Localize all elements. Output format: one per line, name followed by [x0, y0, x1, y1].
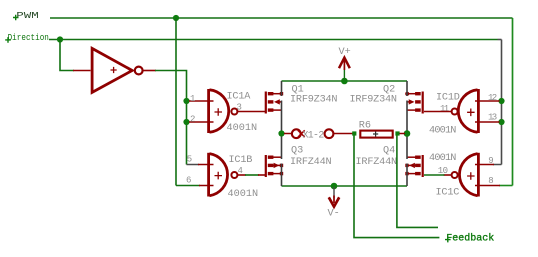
- wire pin 12: [475, 100, 500, 102]
- power V+: [339, 47, 351, 80]
- node Direction junction: [57, 36, 63, 42]
- wire PWM to pin 8: [499, 185, 513, 187]
- svg-text:PWM: PWM: [16, 11, 39, 21]
- gate IC1C (mirrored): [452, 153, 480, 197]
- node right column junction: [404, 130, 411, 137]
- svg-text:IC1B: IC1B: [229, 155, 253, 166]
- svg-text:V+: V+: [339, 47, 351, 58]
- svg-text:12: 12: [488, 93, 497, 103]
- svg-text:IRFZ44N: IRFZ44N: [356, 157, 397, 168]
- wire bottom rail: [282, 185, 408, 187]
- gate IC1A: [207, 89, 237, 133]
- node R6 left junction: [352, 131, 356, 135]
- connector X1-3 pin circle: [325, 129, 334, 138]
- wire IC1A output to Q1 gate: [238, 111, 266, 113]
- svg-text:9: 9: [488, 156, 493, 166]
- op-amp U1 inverter input pin: [73, 70, 91, 72]
- wire pin 8 red: [475, 185, 500, 187]
- svg-text:IC1A: IC1A: [227, 91, 252, 102]
- node V- junction: [331, 183, 338, 190]
- wire X1-3 to R6: [334, 133, 353, 135]
- svg-text:4001N: 4001N: [429, 153, 456, 164]
- wire pin 5 gray: [187, 164, 200, 166]
- node junction pin2: [183, 119, 189, 125]
- svg-text:IC1C: IC1C: [436, 188, 460, 199]
- node PWM junction: [173, 15, 179, 21]
- svg-text:Q3: Q3: [291, 146, 303, 157]
- wire pin 9 red: [475, 164, 494, 166]
- svg-text:6: 6: [186, 176, 191, 186]
- wire right column lower: [406, 164, 408, 187]
- svg-text:5: 5: [187, 155, 192, 165]
- transistor Q2 IRF9Z34N (mirrored): [405, 92, 424, 114]
- wire pin 9 gray: [493, 164, 502, 166]
- node Feedback label: [445, 232, 494, 244]
- op-amp U1 output pin: [143, 70, 156, 72]
- wire PWM vertical right branch: [512, 18, 514, 186]
- wire inverter output: [155, 71, 187, 165]
- wire Direction corner gray: [498, 39, 502, 41]
- connector pin cross: [298, 130, 305, 137]
- wire PWM to pin 6: [176, 185, 200, 187]
- svg-text:X1-2: X1-2: [303, 130, 325, 141]
- wire PWM vertical left branch: [175, 18, 177, 186]
- svg-text:Q4: Q4: [383, 146, 395, 157]
- svg-text:V-: V-: [328, 209, 340, 220]
- node junction pin 12: [498, 98, 504, 104]
- node junction pin1: [183, 98, 189, 104]
- transistor Q3 IRFZ44N: [265, 155, 283, 177]
- transistor Q1 IRF9Z34N: [265, 92, 283, 114]
- gate IC1D (mirrored): [452, 89, 480, 133]
- svg-text:2: 2: [190, 115, 195, 125]
- svg-text:1: 1: [190, 94, 195, 104]
- svg-text:IC1D: IC1D: [436, 92, 460, 103]
- wire IC1B output to Q3 gate: [238, 174, 247, 176]
- wire feedback left branch: [354, 136, 439, 238]
- wire Direction gray vertical right: [501, 40, 503, 165]
- wire Direction horizontal: [49, 39, 498, 41]
- svg-text:4001N: 4001N: [429, 126, 456, 137]
- svg-text:13: 13: [488, 113, 497, 123]
- resistor R6: [360, 131, 392, 138]
- wire top rail: [282, 80, 408, 82]
- svg-text:R6: R6: [359, 120, 371, 131]
- wire PWM horizontal top: [50, 17, 513, 19]
- node junction pin 13: [498, 119, 504, 125]
- svg-text:IRF9Z34N: IRF9Z34N: [350, 94, 397, 105]
- svg-text:Feedback: Feedback: [446, 232, 494, 244]
- svg-text:Direction: Direction: [8, 33, 49, 43]
- wire IC1C output to Q4 gate: [444, 174, 452, 176]
- wire pin 13: [475, 121, 500, 123]
- wire left column upper: [281, 81, 283, 96]
- wire pin 6 red: [199, 185, 214, 187]
- connector X1-2 pin circle: [292, 129, 301, 138]
- wire feedback right branch: [397, 136, 438, 228]
- op-amp U1 inverter: [92, 48, 143, 92]
- node PWM label: [13, 11, 39, 21]
- wire IC1D output to Q2 gate: [424, 111, 452, 113]
- svg-text:8: 8: [488, 176, 493, 186]
- wire pin 2: [189, 121, 214, 123]
- wire left column middle: [281, 101, 283, 160]
- node Direction label: [5, 33, 49, 43]
- wire right column upper: [406, 81, 408, 96]
- wire right column middle: [406, 101, 408, 160]
- svg-text:4001N: 4001N: [228, 189, 259, 200]
- wire pin 5 red: [198, 164, 214, 166]
- power V-: [328, 187, 340, 220]
- node R6 right junction: [395, 131, 399, 135]
- wire Direction down to inverter: [60, 40, 74, 71]
- transistor Q4 IRFZ44N (mirrored): [405, 155, 424, 177]
- wire R6 to right column: [400, 133, 406, 135]
- wire junction to X1-2: [284, 133, 292, 135]
- gate IC1B: [207, 153, 237, 197]
- wire pin 1: [189, 100, 214, 102]
- svg-text:IRFZ44N: IRFZ44N: [290, 157, 331, 168]
- svg-text:IRF9Z34N: IRF9Z34N: [290, 94, 337, 105]
- node V+ junction: [341, 78, 348, 85]
- svg-text:11: 11: [440, 104, 449, 114]
- svg-text:4001N: 4001N: [227, 123, 258, 134]
- wire left column lower: [281, 164, 283, 187]
- node left column junction: [278, 130, 284, 136]
